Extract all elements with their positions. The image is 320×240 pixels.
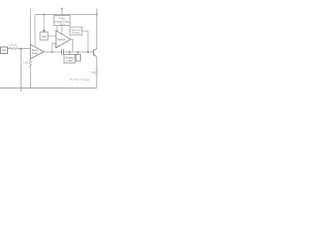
svg-text:Load: Load	[67, 59, 73, 62]
box sense	[76, 55, 81, 62]
wire drop from top rail at x30	[29, 9, 31, 45]
node above reference box	[43, 30, 45, 32]
wire main output line	[63, 51, 93, 53]
node rail2 tap	[43, 14, 45, 16]
wire vertical from node A to bottom	[20, 49, 22, 92]
box U3 reference	[40, 32, 48, 40]
wire switch output right	[71, 39, 73, 52]
node stub on top rail	[61, 8, 63, 10]
node load tap	[69, 51, 71, 53]
capacitor C1	[61, 49, 63, 55]
wire right vertical from rail to collector	[96, 9, 98, 49]
wire left drop from second rail	[34, 15, 36, 46]
wire second rail	[35, 14, 97, 16]
wire ramp box to switch pin1	[56, 26, 58, 32]
wire bottom ground rail	[0, 87, 97, 89]
node rail2-right junction	[96, 14, 98, 16]
node base tap	[87, 51, 89, 53]
node sense tap	[77, 51, 79, 53]
svg-text:Switch: Switch	[57, 37, 66, 41]
svg-text:3 kΩ: 3 kΩ	[23, 61, 28, 65]
wire feedback up to switch lower input	[52, 44, 56, 52]
svg-text:Vref: Vref	[42, 35, 47, 38]
svg-text:R₁ = R₂ = 10 kΩ: R₁ = R₂ = 10 kΩ	[70, 78, 89, 82]
resistor R4 horizontal	[8, 48, 31, 50]
wire thermal box to base drop	[82, 31, 88, 52]
box U2 ramp generator	[54, 16, 70, 26]
svg-text:Protect: Protect	[72, 32, 80, 35]
box U5 thermal protection	[70, 27, 82, 35]
node junction A	[20, 48, 22, 50]
wire ramp box to switch pin2	[61, 26, 63, 35]
svg-text:Amp: Amp	[32, 51, 38, 55]
resistor R5 vertical 3k	[29, 59, 31, 88]
wire drop from rail2 to reference box	[43, 15, 45, 33]
wire error amp output	[44, 51, 61, 53]
svg-text:VIN: VIN	[2, 50, 6, 53]
box output load	[64, 55, 75, 64]
wire reference to switch input	[48, 35, 56, 37]
op-amp U4 switch triangle	[56, 31, 71, 49]
svg-text:1 µF: 1 µF	[55, 46, 60, 48]
wire stub from top rail to ramp box	[61, 9, 63, 16]
wire emitter down	[96, 57, 98, 68]
box source left	[1, 47, 8, 54]
svg-text:Gen: Gen	[60, 23, 65, 26]
op-amp U1 error amp	[30, 45, 44, 59]
node feedback junction	[51, 51, 53, 53]
resistor R6 vertical 1k	[96, 68, 98, 89]
svg-text:47 kΩ: 47 kΩ	[10, 43, 17, 47]
wire stub to load box	[69, 52, 71, 55]
transistor Q1	[93, 50, 95, 56]
svg-text:1 kΩ: 1 kΩ	[90, 71, 95, 75]
wire top supply rail	[0, 8, 97, 10]
wire stub to sense box	[77, 52, 79, 55]
